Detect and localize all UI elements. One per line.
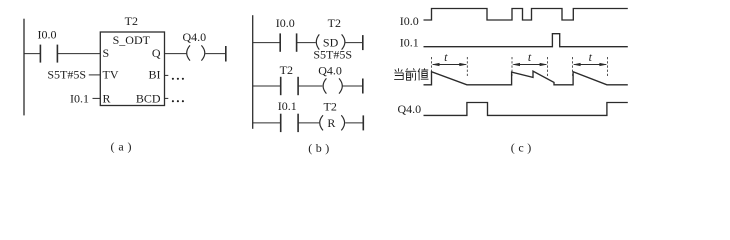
t dimension 2 dashed markers bbox=[512, 57, 548, 76]
t dimension 1 arrow bbox=[432, 63, 468, 66]
svg-text:(: ( bbox=[511, 141, 515, 155]
wire stub R pin bbox=[93, 97, 101, 99]
svg-text:b: b bbox=[316, 141, 322, 155]
rung1 wire contact to coil (b) bbox=[297, 42, 316, 44]
svg-text:t: t bbox=[589, 50, 593, 64]
contact I0.0 (b) bbox=[280, 33, 296, 51]
svg-text:): ) bbox=[325, 141, 329, 155]
right terminal bar (a) bbox=[225, 46, 227, 62]
rung3 wire coil to bar (b) bbox=[345, 122, 363, 124]
svg-text:t: t bbox=[444, 50, 448, 64]
char dang bbox=[394, 68, 403, 79]
svg-text:T2: T2 bbox=[324, 99, 337, 113]
rung2 wire coil to bar (b) bbox=[343, 85, 363, 87]
rung2 wire rail to contact (b) bbox=[253, 85, 281, 87]
svg-text:Q4.0: Q4.0 bbox=[182, 30, 206, 44]
svg-text:T2: T2 bbox=[125, 14, 138, 28]
contact I0.1 (b) bbox=[281, 114, 298, 132]
t dimension 3 arrow bbox=[573, 63, 608, 66]
svg-text:S5T#5S: S5T#5S bbox=[313, 48, 352, 62]
ellipsis dots BCD bbox=[172, 100, 184, 102]
svg-text:BI: BI bbox=[149, 68, 161, 82]
svg-text:BCD: BCD bbox=[136, 92, 161, 106]
svg-text:I0.1: I0.1 bbox=[278, 99, 297, 113]
coil R T2 bbox=[320, 115, 345, 130]
wire Q pin to coil (a) bbox=[165, 53, 187, 55]
svg-text:): ) bbox=[128, 139, 132, 153]
svg-text:a: a bbox=[118, 139, 124, 153]
rung1 wire rail to contact (b) bbox=[253, 42, 281, 44]
char zhi bbox=[418, 68, 429, 80]
wire coil to right bar (a) bbox=[205, 53, 226, 55]
t dimension 1 dashed markers bbox=[432, 57, 468, 76]
rung1 right terminal bar (b) bbox=[362, 35, 364, 50]
caption (b) bbox=[308, 141, 329, 155]
svg-text:I0.0: I0.0 bbox=[400, 14, 419, 28]
coil Q4.0 (b) bbox=[323, 78, 342, 93]
waveform I0.0 bbox=[424, 9, 628, 21]
rung2 wire contact to coil (b) bbox=[298, 85, 322, 87]
t dimension 3 dashed markers bbox=[573, 57, 608, 76]
rung3 wire rail to contact (b) bbox=[253, 122, 281, 124]
timer function block U T2 S_ODT bbox=[100, 32, 164, 106]
svg-text:T2: T2 bbox=[328, 16, 341, 30]
svg-text:t: t bbox=[528, 50, 532, 64]
svg-text:I0.0: I0.0 bbox=[276, 16, 295, 30]
coil Q4.0 (a) bbox=[187, 45, 205, 60]
wire rail to contact I0.0 (a) bbox=[24, 53, 40, 55]
contact I0.0 (a) bbox=[40, 45, 57, 63]
svg-text:S5T#5S: S5T#5S bbox=[47, 68, 86, 82]
svg-text:TV: TV bbox=[103, 68, 119, 82]
rung3 wire contact to coil (b) bbox=[298, 122, 319, 124]
svg-text:): ) bbox=[527, 141, 531, 155]
left power rail (a) bbox=[23, 19, 25, 116]
waveform Q4.0 bbox=[424, 103, 628, 116]
svg-text:c: c bbox=[518, 141, 523, 155]
wire contact to box (a) bbox=[57, 53, 100, 55]
wire stub TV pin bbox=[89, 74, 101, 76]
svg-text:Q: Q bbox=[152, 46, 161, 60]
svg-text:R: R bbox=[103, 92, 111, 106]
wire stub BCD pin bbox=[165, 97, 169, 99]
rung1 wire coil to bar (b) bbox=[345, 42, 363, 44]
svg-text:I0.0: I0.0 bbox=[38, 28, 57, 42]
rung3 right terminal bar (b) bbox=[362, 115, 364, 130]
caption (a) bbox=[111, 139, 132, 153]
caption (c) bbox=[511, 141, 531, 155]
left power rail (b) bbox=[252, 15, 254, 129]
svg-text:Q4.0: Q4.0 bbox=[398, 102, 422, 116]
label dangqianzhi (current value) drawn glyphs bbox=[394, 68, 428, 80]
coil SD T2 bbox=[316, 34, 345, 49]
svg-text:(: ( bbox=[111, 139, 115, 153]
t dimension 2 arrow bbox=[512, 63, 548, 66]
waveform current value ramps bbox=[424, 71, 628, 85]
wire stub BI pin bbox=[165, 74, 169, 76]
char qian bbox=[405, 68, 416, 80]
svg-text:S_ODT: S_ODT bbox=[113, 33, 151, 47]
svg-text:T2: T2 bbox=[280, 63, 293, 77]
ellipsis dots BI bbox=[172, 78, 184, 80]
svg-text:Q4.0: Q4.0 bbox=[318, 63, 342, 77]
rung2 right terminal bar (b) bbox=[362, 79, 364, 94]
svg-text:I0.1: I0.1 bbox=[70, 92, 89, 106]
svg-text:R: R bbox=[327, 116, 335, 130]
waveform I0.1 bbox=[424, 34, 628, 47]
svg-text:I0.1: I0.1 bbox=[400, 36, 419, 50]
svg-text:S: S bbox=[103, 46, 110, 60]
svg-text:(: ( bbox=[308, 141, 312, 155]
contact T2 (b) bbox=[281, 77, 298, 95]
